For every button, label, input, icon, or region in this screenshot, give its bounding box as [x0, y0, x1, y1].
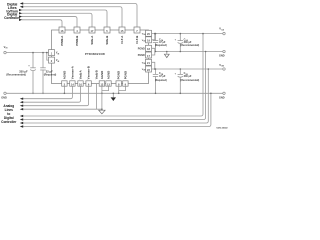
ground AGND symbol	[99, 93, 105, 114]
pin 12 AGND (bottom pair)	[99, 71, 104, 87]
svg-text:SRE-B: SRE-B	[105, 36, 109, 45]
svg-text:PGND: PGND	[138, 54, 145, 57]
svg-text:(Recommended): (Recommended)	[180, 79, 199, 82]
wire sense line VOB	[22, 69, 208, 123]
junction C_oB2 top	[180, 68, 182, 70]
svg-text:(Recommended): (Recommended)	[180, 44, 199, 47]
svg-text:GND: GND	[219, 55, 225, 58]
svg-text:FLT-A: FLT-A	[120, 35, 124, 44]
wire VOA bracket	[152, 34, 155, 40]
wire VOB rail	[152, 68, 223, 70]
junction C_in1 bottom	[32, 93, 34, 95]
arrow sense line VOA	[20, 115, 23, 117]
wire GND rail	[6, 92, 223, 94]
junction pair 8-9 GND	[118, 93, 120, 95]
pin 21 VOB (right)	[142, 59, 152, 65]
pin 13 AGND (bottom pair)	[106, 71, 111, 87]
junction pair 12-13 GND	[101, 93, 103, 95]
node GND terminal left	[1, 92, 7, 99]
junction C_oA2 top	[180, 33, 182, 35]
arrow analog line 1	[20, 98, 23, 100]
junction C_in1 top	[32, 52, 34, 54]
junction pin 3 GND	[64, 93, 66, 95]
arrow sense line GND-A	[20, 118, 23, 120]
pin 13 Vadj-B (bottom)	[94, 70, 98, 79]
pin 15 FLT-A (top)	[119, 27, 125, 44]
pin 8 PGND (bottom pair)	[116, 71, 121, 86]
svg-text:Vadj-A: Vadj-A	[79, 69, 83, 79]
wire VIN rail	[6, 52, 48, 54]
node GND terminal output A	[219, 50, 225, 57]
label: Analog Lines to Digital Controller	[1, 104, 17, 124]
wire digital line 4 to pin 17	[22, 13, 92, 27]
pin 19 VOA (right)	[142, 37, 152, 43]
svg-text:PWM-A: PWM-A	[60, 35, 64, 46]
pin 20 VOA (right)	[142, 30, 152, 36]
wire pin 10 to analog line 2	[22, 86, 81, 102]
svg-text:47 µF: 47 µF	[159, 75, 166, 78]
junction VOB bracket	[154, 68, 156, 70]
svg-text:PWM-B: PWM-B	[75, 36, 79, 46]
pin 18 PGND (right)	[138, 45, 152, 51]
arrow digital line 4	[19, 12, 22, 14]
wire VOB bracket	[152, 62, 155, 69]
svg-text:FLT-B: FLT-B	[135, 36, 139, 44]
node VOB terminal	[219, 63, 225, 70]
pin 17 SRE-A (top)	[89, 27, 95, 45]
wire sense line GND-B	[22, 93, 211, 126]
junction VOA bracket	[154, 33, 156, 35]
svg-text:Controller: Controller	[1, 120, 17, 124]
svg-text:PGND: PGND	[138, 47, 145, 50]
wire digital line 3 to pin 5	[22, 10, 107, 27]
svg-text:Vsense-B: Vsense-B	[87, 66, 91, 79]
pin 3 AGND (bottom)	[62, 71, 67, 87]
arrow sense line GND-B	[20, 125, 23, 127]
svg-text:PGND: PGND	[123, 71, 127, 79]
wire digital line 1 to pin 7	[22, 4, 137, 28]
wire digital line 6 to pin 16	[22, 20, 62, 27]
svg-text:AGND: AGND	[107, 71, 111, 80]
capacitor C_oA1 47uF	[153, 34, 167, 52]
wire sense line GND-A	[22, 52, 206, 120]
node GND terminal output B	[219, 92, 225, 99]
junction C_in2 top	[42, 52, 44, 54]
svg-text:AGND: AGND	[62, 71, 66, 80]
junction C_oA1 bottom	[155, 51, 157, 53]
pin 16 PWM-A (top)	[59, 27, 65, 46]
label: Digital Lines to/from Digital Controller	[4, 3, 21, 21]
arrow sense line VOB	[20, 122, 23, 124]
wire pin 13 to analog line 4	[22, 84, 102, 110]
arrow analog line 3	[20, 105, 23, 107]
svg-text:GND: GND	[219, 97, 225, 100]
junction sense GND-A	[205, 51, 207, 53]
junction C_oB1 top	[155, 68, 157, 70]
pin 7 FLT-B (top)	[134, 27, 140, 44]
svg-text:GND: GND	[1, 97, 7, 100]
svg-text:UDG-06022: UDG-06022	[217, 127, 229, 129]
IC U1 PTD08D210W body	[52, 30, 149, 84]
wire digital line 5 to pin 4	[22, 17, 77, 27]
wire VOA rail	[152, 33, 223, 35]
ground arrow symbol	[111, 93, 116, 101]
svg-text:(Required): (Required)	[155, 44, 167, 47]
svg-text:Vadj-B: Vadj-B	[94, 70, 98, 79]
pin 4 PWM-B (top)	[74, 27, 80, 46]
ground PGND-A symbol	[164, 51, 169, 58]
junction C_oA1 top	[155, 33, 157, 35]
pin 22 VOB (right)	[142, 66, 152, 72]
svg-text:AGND: AGND	[100, 71, 104, 80]
junction sense GND-B	[210, 93, 212, 95]
pin 1 VIN (left)	[49, 50, 61, 56]
junction sense VOB	[208, 68, 210, 70]
svg-text:(Required): (Required)	[44, 74, 57, 77]
wire pin 6 to analog line 3	[22, 86, 89, 106]
svg-text:SRE-A: SRE-A	[90, 35, 94, 45]
arrow digital line 2	[20, 6, 23, 8]
capacitor C_oB1 47uF	[153, 69, 167, 93]
junction C_oA2 bottom	[180, 51, 182, 53]
pin 2 VIN (left)	[49, 57, 61, 63]
wire pins 12-13 bracket to GND	[102, 86, 109, 93]
junction C_oB1 bottom	[155, 93, 157, 95]
svg-text:PTD08D210W: PTD08D210W	[85, 52, 105, 56]
pin 10 Vadj-A (bottom)	[78, 69, 83, 86]
svg-text:(Required): (Required)	[155, 79, 167, 82]
arrow digital line 6	[19, 19, 22, 21]
arrow digital line 5	[19, 15, 22, 17]
wire digital line 2 to pin 15	[22, 7, 122, 27]
node VOA terminal	[219, 27, 225, 35]
arrow digital line 3	[19, 9, 22, 11]
junction C_in2 bottom	[42, 93, 44, 95]
wire pins 8-9 bracket to GND	[119, 86, 126, 93]
pin 9 PGND (bottom pair)	[123, 71, 128, 86]
node VIN terminal	[4, 45, 8, 54]
wire pin 3 to GND rail	[63, 86, 65, 93]
svg-text:(Recommended): (Recommended)	[6, 74, 26, 77]
junction C_oB2 bottom	[180, 93, 182, 95]
wire pin 14 to analog line 1	[22, 86, 72, 99]
arrow digital line 1	[20, 2, 23, 4]
svg-text:Vsense-A: Vsense-A	[71, 65, 75, 79]
pin 14 Vsense-A (bottom)	[70, 65, 75, 86]
arrow analog line 2	[20, 101, 23, 103]
capacitor C_oA2 330uF polarized	[175, 34, 200, 52]
capacitor C_in1 330uF polarized	[6, 53, 35, 94]
pin 6 Vsense-B (bottom)	[86, 66, 91, 86]
capacitor C_oB2 330uF polarized	[175, 69, 200, 93]
junction sense VOA	[202, 33, 204, 35]
junction VIN branch	[46, 52, 48, 54]
svg-text:330 µF: 330 µF	[184, 75, 192, 78]
capacitor C_in2 22uF	[40, 53, 56, 94]
pin 5 SRE-B (top)	[104, 27, 110, 45]
junction ground arrow stem	[113, 93, 115, 95]
svg-text:Controller: Controller	[4, 16, 21, 20]
wire VIN branch to pin 2	[47, 53, 49, 61]
arrow analog line 4	[20, 108, 23, 110]
wire sense line VOA	[22, 34, 203, 116]
pin 17b PGND (right)	[138, 52, 152, 58]
svg-text:PGND: PGND	[117, 71, 121, 79]
wire PGND-A bracket	[152, 48, 223, 55]
